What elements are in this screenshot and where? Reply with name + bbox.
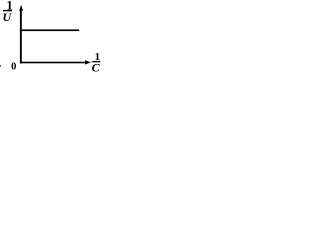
label 1/C <box>92 51 101 74</box>
svg-text:U: U <box>2 10 12 24</box>
data line <box>20 29 79 31</box>
svg-text:C: C <box>92 60 101 74</box>
stray mark at left edge <box>0 65 1 67</box>
label 1/U <box>2 0 12 24</box>
svg-text:0: 0 <box>11 62 16 73</box>
y-axis <box>19 5 23 64</box>
x-axis <box>20 60 91 64</box>
